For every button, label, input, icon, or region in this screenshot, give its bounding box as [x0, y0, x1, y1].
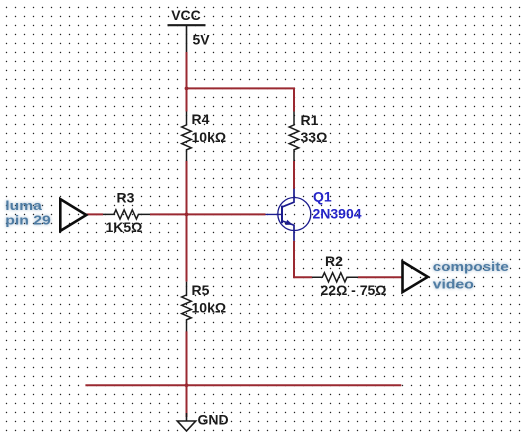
wire: R3 to base node to Q1 base: [150, 213, 266, 215]
node B: base junction: [185, 213, 189, 217]
svg-text:5V: 5V: [193, 32, 211, 48]
svg-text:Q1: Q1: [313, 189, 332, 205]
port: composite video output triangle: [403, 262, 428, 293]
svg-text:composite: composite: [433, 259, 509, 274]
port: luma input triangle: [60, 199, 86, 231]
svg-text:R1: R1: [301, 112, 319, 128]
svg-text:R4: R4: [192, 111, 210, 127]
svg-text:1K5Ω: 1K5Ω: [106, 219, 143, 235]
svg-text:luma: luma: [5, 198, 42, 213]
resistor R2: [312, 273, 358, 282]
wire: top branch horizontal to R1 column: [187, 88, 295, 111]
resistor R4: [182, 112, 192, 162]
wire: input port to R3: [87, 213, 104, 215]
svg-text:pin 29: pin 29: [5, 213, 51, 228]
wire: VCC stem to R4 top: [186, 52, 188, 112]
svg-text:R3: R3: [117, 190, 135, 206]
svg-text:2N3904: 2N3904: [313, 206, 362, 222]
net label composite video: [433, 259, 509, 291]
node ground junction: [185, 383, 189, 387]
transistor Q1: [266, 189, 311, 241]
svg-text:GND: GND: [198, 412, 229, 428]
svg-text:R2: R2: [325, 253, 343, 269]
resistor R1: [289, 112, 299, 162]
net label luma pin 29: [5, 198, 51, 228]
svg-text:10kΩ: 10kΩ: [192, 129, 227, 145]
node junction top branch: [185, 87, 189, 91]
wire: R4 bottom to R5 top: [186, 161, 188, 282]
svg-text:33Ω: 33Ω: [301, 129, 328, 145]
svg-text:R5: R5: [192, 282, 210, 298]
wire: R1 bottom to Q1 collector: [293, 161, 295, 189]
svg-text:10kΩ: 10kΩ: [192, 300, 227, 316]
wire: ground rail: [85, 384, 401, 386]
wire: R5 bottom to ground rail and GND stem: [186, 331, 188, 417]
svg-text:22Ω - 75Ω: 22Ω - 75Ω: [321, 282, 387, 298]
svg-text:video: video: [433, 276, 474, 291]
power VCC symbol: [168, 25, 206, 52]
svg-text:VCC: VCC: [171, 7, 201, 23]
resistor R5: [182, 282, 192, 332]
wire: Q1 emitter down and right to R2: [294, 241, 312, 277]
ground: [177, 413, 195, 431]
resistor R3: [103, 210, 150, 219]
wire: R2 to output port: [358, 276, 403, 278]
